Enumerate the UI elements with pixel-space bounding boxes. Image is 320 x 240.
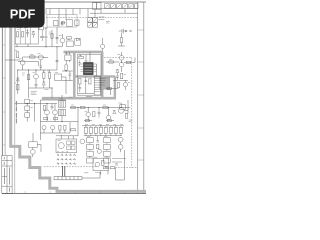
resistor R9 [43, 73, 45, 79]
label T1 text [59, 98, 63, 100]
resistor R38 [39, 26, 43, 30]
wire connects U3 [62, 77, 66, 94]
varistor row RV1 [105, 4, 110, 9]
wire q5 leads [121, 52, 123, 72]
resistor R24 [103, 106, 108, 108]
driver row box 6 [109, 127, 112, 133]
output grid top bus [82, 125, 124, 127]
label note3 [68, 96, 73, 98]
capacitor C5 [35, 85, 38, 88]
label R9 text [43, 70, 50, 72]
capacitor C10 [84, 80, 87, 81]
varistor RV4 [123, 4, 128, 9]
small IC U2 [67, 41, 74, 47]
label R17 text [124, 74, 126, 76]
capacitor C6 [56, 61, 59, 62]
border frame bottom [2, 193, 146, 195]
power resistor bank right: R32 [104, 138, 111, 143]
resistor R36 [97, 144, 99, 149]
power resistor R34 [104, 151, 111, 156]
thick ground feed lines [63, 166, 65, 177]
wire y135.8 left [56, 135, 78, 137]
wire y88 mid-left [29, 87, 52, 89]
power resistor R33 [104, 144, 111, 149]
wire stubs right of R38 [43, 28, 48, 37]
wire y80.4 right cluster [113, 79, 128, 81]
resistor R15 [109, 61, 114, 63]
capacitor C9 [78, 84, 81, 92]
left border tick marks [2, 45, 5, 145]
capacitor C11 [116, 73, 119, 80]
vertical bus x40.4 [39, 100, 41, 140]
resistor R37 [102, 160, 104, 165]
capacitor C2 [26, 29, 29, 37]
label U3 text [55, 72, 58, 74]
resistor R45 [59, 125, 61, 130]
resistor R17 [120, 73, 122, 78]
U1 left pins [80, 64, 83, 72]
label block note1 [31, 91, 37, 94]
fuse F1 [99, 17, 105, 20]
border frame right outer [143, 2, 145, 194]
power resistor bank left: R28 [87, 138, 94, 143]
capacitor C16 [115, 164, 118, 165]
label Q7 text [128, 82, 130, 84]
resistor R2 [22, 32, 24, 37]
wire right edge stub [134, 58, 136, 63]
transistor Q8 [45, 110, 50, 115]
svg-text:PDF: PDF [10, 7, 36, 22]
gray divider band: vertical x102 [101, 52, 104, 98]
bottom ladder bus upper [54, 176, 82, 178]
wire x57 drop [56, 27, 58, 44]
heatsink box bottom [93, 158, 109, 170]
opto U4 [65, 55, 71, 60]
bank connecting wires [90, 143, 107, 158]
driver row box 4 [99, 127, 102, 133]
wire drop x80 [79, 9, 81, 15]
resistor R7 [17, 85, 19, 90]
power resistor R30 [87, 151, 94, 156]
driver row box 2 [89, 127, 92, 133]
ladder rungs [54, 177, 82, 180]
wire x85.8 y76-93 [85, 77, 87, 94]
wire drop x88 [87, 9, 89, 17]
label R15 text [109, 59, 112, 61]
resistor R3 [51, 34, 53, 39]
label R5 text [15, 49, 18, 51]
border frame left line 1 [1, 27, 3, 194]
wire y120.6 sub [84, 120, 114, 122]
label note4 top right [106, 21, 110, 23]
border frame top [2, 1, 146, 3]
label Q5 text [117, 54, 120, 56]
motor M1 [118, 108, 124, 114]
label row boxes text [85, 123, 123, 125]
varistor RV2 [111, 4, 116, 9]
main bus y103.5 [15, 103, 57, 105]
wire drop x50 [49, 9, 51, 15]
resistor R25 [125, 113, 127, 118]
resistor R43 [44, 117, 48, 119]
resistor R22 [80, 106, 85, 108]
transistor Q14 [118, 137, 123, 142]
resistor R6 [30, 56, 35, 58]
label R32 text [104, 136, 107, 138]
label note2 [44, 89, 48, 91]
resistor R13 [79, 78, 81, 84]
resistor R1 [17, 32, 19, 37]
wire x78 drop [77, 108, 79, 126]
title block [2, 156, 12, 194]
gray divider band: vertical x74 [73, 52, 76, 98]
varistor RV6 [135, 4, 138, 9]
U1 right pins [93, 64, 96, 72]
wire y88.6 [106, 89, 118, 95]
transistor Q7 [123, 82, 127, 86]
border frame left line 3 [14, 27, 16, 194]
dashed section line right [104, 57, 132, 59]
border frame right inner [137, 2, 139, 194]
dashed vertical section line [131, 58, 133, 168]
relay K2 coil [58, 143, 64, 149]
transistor Q10 [86, 112, 90, 116]
label Q8 text [44, 110, 46, 112]
wire y133 [40, 122, 70, 133]
capacitor C8 [78, 60, 80, 66]
fuse F4 [25, 113, 30, 117]
wire drop x59 [58, 9, 60, 27]
transistor Q18 [42, 126, 46, 130]
wire x52 drop [51, 30, 53, 47]
control module box [77, 55, 101, 96]
aux transistor Q20 [30, 149, 35, 154]
label R6 text [30, 53, 33, 55]
title block text smudges [4, 157, 9, 192]
wire drop x66 [65, 9, 67, 20]
capacitor C7 [69, 71, 72, 81]
wire top second [90, 12, 138, 14]
wire drop x95 [94, 9, 96, 17]
connector U5 pin box [94, 76, 100, 95]
fuse F2 [25, 99, 30, 103]
resistor R46 [64, 125, 66, 130]
wire column x27 [26, 104, 28, 122]
wire y61.5 long [18, 62, 38, 67]
resistor R47 [71, 129, 76, 131]
transistor Q19 [51, 126, 55, 130]
power resistor R31 [87, 158, 94, 163]
gray divider band: horizontal y98 [42, 97, 116, 100]
capacitor C13 [98, 108, 101, 118]
transistor Q5 [119, 56, 124, 61]
varistor RV5 [129, 4, 134, 9]
bottom border tick marks [25, 191, 125, 193]
resistor R21 on bus [71, 106, 76, 108]
diode matrix row 3 [57, 163, 75, 165]
wire y57 [23, 56, 44, 58]
dashed separator bottom [44, 166, 96, 168]
wire left feed y60 [5, 59, 20, 61]
bottom right L wire [116, 150, 125, 180]
capacitor C14 [96, 136, 99, 142]
wire x46 drop [45, 9, 47, 47]
label R24 text [103, 104, 106, 106]
gray divider band: horizontal y52 [64, 51, 103, 54]
mosfet Q16 [119, 29, 128, 34]
border frame left line 2 [4, 27, 6, 155]
capacitor C19 [75, 20, 79, 25]
node X1 [129, 30, 131, 32]
resistor R14 [89, 79, 91, 84]
label R12 text [79, 55, 82, 57]
label note5 [129, 120, 133, 122]
transistor Q17 [100, 44, 104, 48]
relay leads [61, 135, 73, 139]
label U5 text [95, 74, 98, 76]
dashed corner bottom-right [115, 167, 138, 169]
label TH1 text [94, 156, 97, 158]
connector J1 box pair [92, 3, 96, 9]
fuse F3 [25, 106, 30, 110]
label smudges group [14, 21, 132, 172]
top bus wire [46, 8, 138, 10]
power resistor R35 [104, 158, 111, 163]
capacitor C12 [51, 104, 54, 111]
bus y107.5 right [70, 107, 130, 109]
vertical label text column [15, 101, 17, 121]
wire x52 y88-98 [51, 88, 53, 98]
capacitor C17 [40, 30, 44, 41]
resistor R11 [65, 65, 67, 70]
gray divider band: staircase to bottom right [11, 146, 146, 191]
PDF badge [0, 0, 45, 28]
wire riser x57 [56, 47, 58, 70]
driver row box 7 [114, 127, 117, 133]
resistor R42 [110, 167, 115, 169]
transistor Q1 [60, 38, 65, 43]
gray divider band: vertical x115 [114, 76, 116, 98]
diode D6 [116, 70, 119, 73]
resistor R10 [48, 73, 50, 79]
label R7 text [14, 82, 16, 84]
transistor Q9 [53, 110, 58, 115]
driver row box 1 [84, 127, 87, 133]
transistor Q4 [34, 74, 39, 79]
diode D5 [42, 82, 45, 88]
top mid module box [47, 15, 77, 28]
resistor R27 [107, 120, 111, 122]
driver row leads [86, 126, 121, 128]
transistor Q2 [20, 60, 25, 65]
wire x128 vertical [127, 100, 129, 113]
gray connector block U9 [100, 77, 110, 89]
resistor R39 [120, 38, 122, 43]
label R3 text [49, 32, 51, 34]
wire x34 drop [34, 104, 36, 122]
transistor Q12 [80, 139, 85, 144]
wire y93.4 inside box [78, 92, 94, 94]
label box header [16, 27, 28, 29]
power resistor R29 [87, 144, 94, 149]
resistor R23 [93, 112, 95, 117]
resistor R12 [79, 56, 84, 58]
aux wires [33, 133, 41, 157]
label vertical feeder text [15, 101, 17, 123]
right border tick marks [138, 30, 144, 160]
driver row box 3 [94, 127, 97, 133]
transistor Q13 [97, 149, 101, 153]
thermistor TH1 [95, 162, 99, 166]
diode matrix row 2 [57, 158, 75, 160]
label F2 text [30, 100, 32, 102]
component cluster top right of center [75, 39, 81, 46]
diagonal marks in varistor row [105, 4, 133, 7]
input sub-circuit box [15, 26, 38, 44]
label text smudge [22, 73, 25, 75]
wire x44 x49 drops [44, 70, 50, 88]
resistor R40 [61, 22, 66, 24]
wire bottom mid-right [101, 171, 108, 175]
label Q10 text [85, 110, 88, 112]
resistor R16 [126, 61, 131, 63]
wire q16 drop [118, 33, 125, 46]
varistor RV3 [117, 4, 122, 9]
label R28 text [87, 136, 90, 138]
junction dots [17, 46, 122, 126]
wire y62 right [106, 61, 135, 63]
label Q4 text [32, 72, 35, 74]
transformer leads [61, 95, 63, 122]
transformer T1 primary [58, 101, 65, 108]
label smudge under box [86, 96, 92, 98]
capacitor C4 [40, 66, 42, 70]
wire ladder to right [82, 172, 100, 178]
resistor R41 [103, 167, 108, 169]
label Q3 text [38, 53, 41, 55]
transistor Q11 [106, 115, 110, 119]
capacitor C3 [56, 38, 59, 39]
label Q1 text [59, 34, 62, 36]
driver row box 5 [104, 127, 107, 133]
resistor R19 [107, 88, 111, 90]
zener D4 [16, 78, 19, 81]
wire x96.6 drop [96, 64, 98, 76]
wire u4 leads [66, 52, 69, 64]
resistor R20 [43, 105, 45, 110]
gray divider band: horizontal y76 [74, 75, 115, 77]
wire x78 extend [77, 126, 79, 136]
capacitor C1 [61, 21, 63, 26]
label Q2 text [19, 58, 21, 60]
wire x80 drop into box [80, 52, 90, 63]
transistor Q6 [119, 62, 124, 67]
wire x28.6 vertical [28, 70, 30, 98]
transformer T1 secondary [58, 109, 65, 115]
wire y80.5 stub [62, 80, 73, 82]
connector pins right bottom [112, 159, 126, 162]
label R21 text [71, 104, 74, 106]
label C2 text [26, 30, 28, 32]
wire y70 [18, 69, 57, 71]
gray divider band: left vertical [9, 27, 12, 148]
resistor R18 [117, 82, 119, 87]
diode D3 [76, 38, 79, 41]
wire drop x73 [72, 9, 74, 15]
transistor Q3 [38, 55, 43, 60]
right module small box [120, 105, 126, 110]
power box mid-bottom [40, 100, 78, 122]
small box U3 [55, 74, 62, 80]
relay contact boxes [67, 141, 71, 145]
bottom ladder bus lower [54, 179, 82, 181]
aux sensor box [29, 142, 38, 148]
grid mid bus [84, 135, 122, 137]
diode matrix row 1 [57, 154, 75, 156]
U5 fan-out wires [101, 78, 106, 85]
capacitor C15 [105, 166, 108, 167]
label R1 text [17, 28, 19, 30]
transistor Q15 [118, 144, 123, 149]
dashed rail top [46, 17, 138, 19]
resistor R5 [16, 52, 18, 58]
IC U1 dark block [83, 62, 93, 74]
resistor R4 [67, 37, 72, 39]
driver row box 8 [119, 127, 122, 133]
label U4 text [65, 53, 68, 55]
box column dividers [20, 26, 30, 44]
label M1 text [118, 102, 121, 104]
resistor R8 [27, 75, 29, 80]
diode D2 [32, 31, 35, 38]
wire y71 stub [62, 69, 73, 72]
wire top-right drop [101, 9, 125, 13]
label diode matrix text [57, 151, 68, 153]
relay K1 [67, 20, 72, 27]
node bus A [15, 44, 62, 47]
label U1 text [84, 60, 88, 62]
label F3 text [30, 106, 32, 108]
vertical wire x17.8 [17, 70, 19, 94]
bridge rectifier D1 cluster [88, 18, 93, 23]
label note6 bottom [84, 172, 88, 174]
label heatsink text [95, 171, 100, 173]
label K2 text [58, 140, 61, 142]
diode D7 [113, 111, 116, 114]
relay module box [56, 139, 77, 153]
label U2 text [67, 39, 70, 41]
resistor R44 [54, 117, 58, 119]
resistor R26 [85, 120, 89, 122]
capacitor C18 [54, 20, 58, 25]
